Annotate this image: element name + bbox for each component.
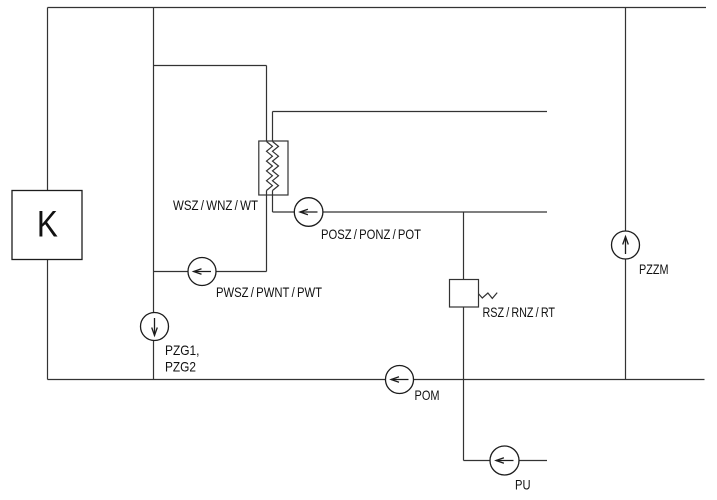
svg-text:POSZ / PONZ / POT: POSZ / PONZ / POT	[321, 227, 422, 242]
heat exchanger WSZ/WNZ/WT	[259, 141, 288, 195]
svg-text:PZG2: PZG2	[165, 360, 196, 375]
pump PZG1 PZG2	[141, 313, 169, 341]
svg-text:POM: POM	[415, 388, 440, 403]
svg-text:RSZ / RNZ / RT: RSZ / RNZ / RT	[483, 305, 556, 320]
wire left riser to boiler K	[47, 8, 49, 191]
svg-text:PZG1,: PZG1,	[165, 343, 200, 358]
valve RSZ/RNZ/RT	[450, 280, 498, 308]
svg-text:WSZ / WNZ / WT: WSZ / WNZ / WT	[173, 198, 259, 213]
wire heat exchanger right pipe upper	[272, 112, 274, 142]
svg-text:PU: PU	[515, 477, 531, 492]
wire branch to heat exchanger primary	[154, 65, 267, 67]
boiler K	[12, 191, 82, 260]
wire PWSZ line	[154, 271, 267, 273]
wire bottom return header	[48, 379, 705, 381]
wire heat exchanger right pipe lower	[272, 191, 274, 213]
wire PU riser	[463, 380, 465, 461]
wire PZZM riser	[625, 8, 627, 380]
wire boiler K outlet down	[47, 260, 49, 380]
wire top supply header	[48, 7, 707, 9]
wire secondary supply header	[273, 111, 548, 113]
wire heat exchanger left pipe upper	[266, 66, 268, 142]
pump PWSZ/PWNT/PWT	[188, 258, 216, 286]
pump PU	[490, 446, 519, 475]
wire POSZ line	[273, 211, 548, 213]
pump POM	[386, 366, 414, 394]
pump PZZM	[612, 231, 640, 259]
svg-text:PWSZ / PWNT / PWT: PWSZ / PWNT / PWT	[216, 285, 323, 300]
pump POSZ/PONZ/POT	[294, 198, 323, 227]
wire PU line	[464, 460, 548, 462]
wire second riser	[153, 8, 155, 380]
wire RSZ drop	[463, 212, 465, 380]
wire heat exchanger left pipe lower	[266, 191, 268, 272]
svg-text:K: K	[37, 204, 58, 245]
svg-text:PZZM: PZZM	[639, 262, 669, 277]
